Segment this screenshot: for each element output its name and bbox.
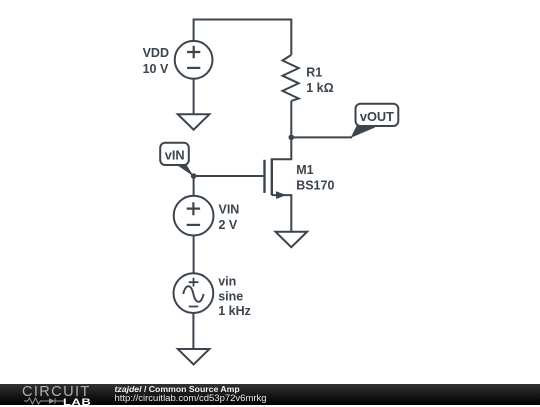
svg-text:sine: sine xyxy=(218,290,243,304)
dc source VIN xyxy=(174,196,214,236)
transistor M1 drain lead xyxy=(272,137,292,159)
svg-text:1 kHz: 1 kHz xyxy=(218,304,251,318)
wire VIN to vin sine source xyxy=(193,236,195,274)
node vIN junction xyxy=(191,173,197,179)
svg-text:VDD: VDD xyxy=(143,46,169,60)
svg-text:R1: R1 xyxy=(306,66,322,80)
wire VDD to ground xyxy=(193,79,195,115)
logo CIRCUIT wordmark xyxy=(22,385,91,400)
wire gate from vIN node to M1 xyxy=(194,175,264,177)
svg-text:vin: vin xyxy=(218,274,236,288)
logo circuit glyph resistor and diode xyxy=(24,397,64,405)
wire top rail from VDD to R1 xyxy=(194,20,292,55)
svg-text:BS170: BS170 xyxy=(296,178,334,192)
transistor M1 gate bar xyxy=(263,160,265,193)
resistor R1 xyxy=(283,55,299,101)
transistor M1 source arrow xyxy=(276,191,286,199)
transistor M1 channel bar xyxy=(271,158,273,195)
svg-text:1 kΩ: 1 kΩ xyxy=(306,81,333,95)
svg-text:M1: M1 xyxy=(296,163,313,177)
svg-text:VIN: VIN xyxy=(219,202,240,216)
ground below M1 source xyxy=(276,232,308,248)
ground below VDD xyxy=(178,114,210,130)
footer title tzajdel / Common Source Amp xyxy=(115,385,240,394)
footer url text xyxy=(115,394,267,404)
wire output node to vOUT flag xyxy=(291,136,352,138)
svg-text:vIN: vIN xyxy=(165,148,185,163)
logo LAB wordmark xyxy=(63,398,91,407)
wire vin sine to ground xyxy=(192,313,194,349)
ground below vin sine xyxy=(178,349,210,365)
sine source vin xyxy=(174,273,214,313)
node output junction xyxy=(289,135,295,141)
svg-text:2 V: 2 V xyxy=(219,218,238,232)
transistor M1 source lead xyxy=(272,195,292,232)
svg-text:vOUT: vOUT xyxy=(360,109,394,124)
dc source VDD xyxy=(175,41,213,79)
footer bar xyxy=(0,384,540,405)
svg-text:10 V: 10 V xyxy=(143,62,169,76)
flag vOUT xyxy=(351,104,399,138)
wire vIN node to VIN source xyxy=(193,176,195,196)
flag vIN xyxy=(160,143,194,177)
wire R1 to output node xyxy=(290,101,292,138)
